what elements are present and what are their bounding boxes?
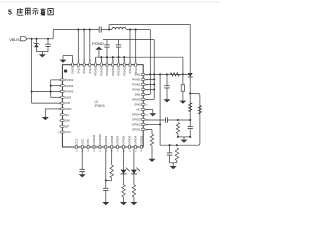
svg-text:SW1: SW1 — [134, 93, 141, 97]
svg-text:GPIO4: GPIO4 — [133, 135, 137, 144]
svg-text:GPIO1: GPIO1 — [132, 128, 141, 132]
svg-text:5: 5 — [8, 9, 12, 16]
svg-text:PVIN2: PVIN2 — [65, 78, 74, 82]
svg-text:GPIO11: GPIO11 — [92, 134, 96, 145]
svg-text:IP6826: IP6826 — [95, 104, 105, 108]
svg-text:GPIO6: GPIO6 — [122, 135, 126, 144]
svg-text:CC2: CC2 — [65, 130, 71, 134]
svg-text:PVIN1: PVIN1 — [132, 83, 141, 87]
svg-text:SW2: SW2 — [88, 67, 92, 74]
svg-text:PVIN1: PVIN1 — [132, 78, 141, 82]
svg-text:GPIO0: GPIO0 — [132, 98, 141, 102]
svg-text:GND: GND — [71, 67, 75, 73]
svg-text:VBUS: VBUS — [9, 38, 20, 42]
svg-text:GPIO5: GPIO5 — [128, 135, 132, 144]
svg-text:GPIO7: GPIO7 — [116, 135, 120, 144]
svg-text:DP: DP — [65, 124, 69, 128]
svg-text:GPIO4: GPIO4 — [132, 113, 141, 117]
svg-text:GPIO3: GPIO3 — [132, 118, 141, 122]
svg-text:VIN: VIN — [65, 101, 70, 105]
svg-text:GND: GND — [65, 107, 71, 111]
svg-text:PGND: PGND — [122, 67, 126, 75]
svg-text:PGND: PGND — [105, 67, 109, 75]
svg-text:NTC: NTC — [86, 139, 90, 145]
svg-text:SW2: SW2 — [65, 95, 72, 99]
svg-text:DM: DM — [65, 119, 70, 123]
svg-text:PGND: PGND — [92, 41, 104, 46]
svg-text:PVIN1: PVIN1 — [132, 88, 141, 92]
svg-text:PGND: PGND — [117, 67, 121, 75]
svg-text:PGND: PGND — [111, 67, 115, 75]
svg-text:GPIO8: GPIO8 — [110, 135, 114, 144]
svg-text:GPIO9: GPIO9 — [104, 135, 108, 144]
svg-text:SW2: SW2 — [76, 67, 80, 74]
svg-text:GPIO2: GPIO2 — [132, 123, 141, 127]
svg-text:SW2: SW2 — [82, 67, 86, 74]
svg-text:PGND: PGND — [99, 67, 103, 75]
svg-text:GPIO10: GPIO10 — [98, 134, 102, 145]
svg-text:VCC: VCC — [80, 138, 84, 144]
svg-text:NC: NC — [136, 108, 140, 112]
svg-text:GPIO3: GPIO3 — [139, 135, 143, 144]
svg-text:SW1: SW1 — [134, 73, 141, 77]
svg-text:GND: GND — [134, 103, 140, 107]
svg-text:PVIN2: PVIN2 — [65, 84, 74, 88]
svg-text:PVIN2: PVIN2 — [65, 90, 74, 94]
svg-text:SW1: SW1 — [128, 67, 132, 74]
svg-text:PGND: PGND — [94, 67, 98, 75]
svg-text:NC: NC — [65, 113, 69, 117]
svg-text:CC1: CC1 — [74, 138, 78, 144]
